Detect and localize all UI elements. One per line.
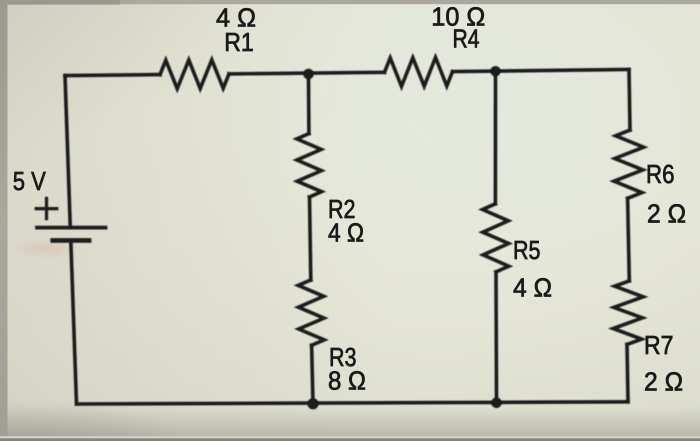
svg-text:4 Ω: 4 Ω: [513, 273, 552, 303]
svg-text:8 Ω: 8 Ω: [328, 366, 366, 396]
svg-text:2 Ω: 2 Ω: [644, 367, 683, 397]
svg-text:5 V: 5 V: [13, 166, 47, 196]
svg-text:R7: R7: [644, 330, 674, 360]
svg-text:2 Ω: 2 Ω: [647, 199, 686, 229]
svg-text:R1: R1: [224, 27, 254, 57]
svg-text:R6: R6: [646, 159, 675, 189]
svg-text:R5: R5: [513, 235, 541, 265]
svg-text:4 Ω: 4 Ω: [328, 218, 364, 248]
svg-text:R4: R4: [453, 24, 480, 54]
